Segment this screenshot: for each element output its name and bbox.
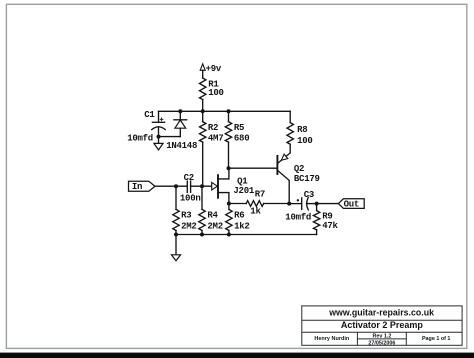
- wire junction to Out port: [317, 203, 339, 205]
- R4 labels: [207, 211, 222, 232]
- wire top rail corner down to R8: [289, 111, 291, 122]
- wire node to C3: [289, 203, 300, 205]
- R5 labels: [234, 123, 249, 143]
- svg-text:100n: 100n: [180, 194, 201, 204]
- node rail R3: [174, 233, 178, 237]
- wire C1 junction to diode bottom: [159, 136, 181, 138]
- svg-text:100: 100: [297, 136, 312, 146]
- node Q1 source / R6 / R7 junction: [227, 202, 231, 206]
- svg-text:Out: Out: [344, 200, 359, 210]
- resistor R9: [313, 211, 319, 230]
- wire base node to Q2 base: [229, 167, 277, 169]
- resistor R2: [200, 122, 206, 142]
- svg-text:R8: R8: [297, 125, 307, 135]
- wire R6 top: [228, 204, 230, 210]
- wire R2 bottom to input node: [202, 142, 204, 186]
- svg-text:10mfd: 10mfd: [285, 213, 311, 223]
- svg-text:Activator 2 Preamp: Activator 2 Preamp: [341, 320, 424, 330]
- wire top rail down to C1: [158, 111, 160, 122]
- wire R1 bottom to top rail: [202, 100, 204, 112]
- svg-text:2M2: 2M2: [207, 221, 222, 231]
- node Q2 collector / C3 junction: [287, 202, 291, 206]
- svg-text:R6: R6: [234, 211, 244, 221]
- svg-text:1N4148: 1N4148: [166, 141, 197, 151]
- resistor R6: [226, 209, 232, 230]
- resistor R1: [200, 78, 206, 99]
- resistor R3: [173, 209, 179, 230]
- node gate / R2 / R4 junction: [200, 184, 204, 188]
- wire top rail down to R2: [202, 111, 204, 121]
- power +9v symbol: [200, 64, 205, 78]
- svg-text:+9v: +9v: [206, 64, 222, 74]
- svg-text:C1: C1: [144, 110, 155, 120]
- node input / R3 junction: [174, 184, 178, 188]
- svg-text:100: 100: [208, 88, 223, 98]
- wire R4 bottom: [201, 231, 203, 235]
- svg-text:www.guitar-repairs.co.uk: www.guitar-repairs.co.uk: [328, 308, 434, 318]
- wire R6 bottom: [228, 231, 230, 235]
- wire Q1 source to R7: [229, 203, 246, 205]
- wire R5 bottom to base node: [228, 142, 230, 168]
- node top rail / R1-R2 junction: [201, 109, 205, 113]
- wire R9 bottom to rail: [316, 230, 318, 235]
- svg-text:R2: R2: [208, 123, 218, 133]
- wire C2 to gate node: [191, 185, 212, 187]
- capacitor C3: [297, 197, 317, 209]
- svg-text:C2: C2: [184, 173, 194, 183]
- svg-text:Henry Nurdin: Henry Nurdin: [314, 336, 349, 342]
- wire R8 bottom to Q2 emitter: [289, 144, 291, 153]
- R2 labels: [208, 123, 223, 143]
- node rail R6: [227, 233, 231, 237]
- svg-text:J201: J201: [233, 186, 254, 196]
- port Out: [338, 199, 364, 209]
- diode D1 1N4148: [174, 120, 187, 137]
- title block: [302, 306, 462, 345]
- resistor R5: [225, 122, 231, 142]
- svg-text:2M2: 2M2: [181, 221, 196, 231]
- svg-text:R4: R4: [207, 211, 218, 221]
- svg-text:In: In: [132, 182, 142, 192]
- svg-text:R3: R3: [181, 211, 191, 221]
- wire R3 top: [175, 186, 177, 209]
- wire top rail down to diode: [179, 111, 181, 120]
- svg-text:R7: R7: [255, 190, 265, 200]
- svg-text:R9: R9: [322, 211, 332, 221]
- node top rail / R5 junction: [227, 109, 231, 113]
- resistor R4: [199, 209, 205, 230]
- svg-text:R5: R5: [234, 123, 244, 133]
- resistor R8: [287, 123, 293, 145]
- wire bottom rail: [176, 234, 317, 236]
- svg-text:Rev 1.2: Rev 1.2: [372, 333, 391, 339]
- R6 labels: [234, 211, 249, 232]
- svg-text:BC179: BC179: [294, 174, 320, 184]
- R3 labels: [181, 211, 196, 232]
- svg-text:C3: C3: [304, 190, 314, 200]
- node rail R4: [200, 233, 204, 237]
- capacitor C1: [152, 118, 166, 137]
- wire top rail down to R5: [228, 111, 230, 121]
- node R5 / Q1 drain / Q2 base junction: [227, 166, 231, 170]
- svg-text:1k: 1k: [250, 207, 261, 217]
- svg-text:47k: 47k: [322, 221, 338, 231]
- bottom black bar: [0, 353, 474, 358]
- R8 labels: [297, 125, 312, 146]
- resistor R7: [246, 201, 263, 207]
- svg-text:4M7: 4M7: [208, 134, 223, 144]
- ground (bottom rail): [171, 235, 180, 261]
- ground (under C1): [154, 137, 163, 150]
- svg-text:1k2: 1k2: [234, 221, 249, 231]
- R1 value labels: [208, 80, 223, 99]
- node C1 bottom junction: [157, 135, 161, 139]
- port In: [129, 181, 156, 191]
- wire R7 to collector node: [264, 203, 290, 205]
- node top rail / diode junction: [178, 109, 182, 113]
- svg-text:10mfd: 10mfd: [127, 133, 153, 143]
- wire R3 bottom: [175, 231, 177, 235]
- R9 labels: [322, 211, 338, 231]
- transistor Q2 BC179: [277, 153, 290, 204]
- svg-text:27/05/2006: 27/05/2006: [368, 340, 395, 346]
- transistor Q1 J201: [212, 168, 229, 203]
- svg-text:Q2: Q2: [294, 164, 304, 174]
- wire R9 top: [316, 204, 318, 211]
- node C3 / R9 / Out junction: [315, 202, 319, 206]
- wire R4 top: [201, 186, 203, 209]
- svg-text:680: 680: [234, 134, 249, 144]
- wire top rail: [159, 110, 291, 112]
- capacitor C2: [187, 181, 190, 192]
- wire In port to C2: [155, 185, 187, 187]
- svg-text:Page 1 of 1: Page 1 of 1: [422, 336, 450, 342]
